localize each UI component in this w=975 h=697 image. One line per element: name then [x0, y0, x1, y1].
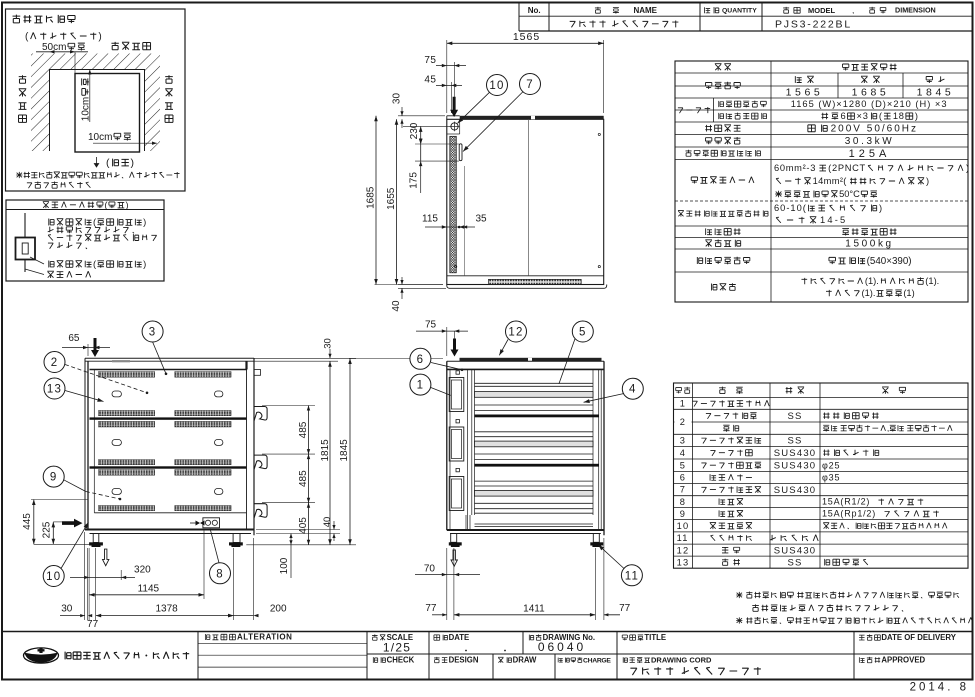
- svg-text:230: 230: [409, 122, 420, 139]
- svg-text:11: 11: [625, 570, 639, 582]
- front view: [339, 319, 643, 620]
- svg-text:485: 485: [298, 470, 309, 487]
- svg-text:SUS430: SUS430: [774, 448, 817, 459]
- handle profiles (right of side view): [254, 407, 267, 422]
- water inlet thick arrow (side): [62, 519, 83, 528]
- svg-text:3: 3: [680, 436, 686, 446]
- balloon 13: [44, 378, 65, 399]
- svg-text:1500kg: 1500kg: [845, 239, 893, 250]
- svg-text:φ35: φ35: [822, 472, 840, 482]
- balloon 5: [572, 321, 593, 342]
- svg-text:175: 175: [408, 172, 419, 189]
- svg-text:1655: 1655: [386, 187, 397, 210]
- plan bottom grille: [488, 279, 581, 284]
- svg-text:MODEL: MODEL: [808, 6, 836, 15]
- plan bottom front band: [447, 275, 604, 277]
- svg-text:): ): [98, 31, 101, 42]
- svg-text:1685: 1685: [365, 186, 376, 209]
- svg-text:30: 30: [391, 93, 402, 105]
- svg-text:): ): [143, 216, 146, 227]
- svg-text:): ): [966, 163, 970, 173]
- front label: [94, 157, 98, 167]
- svg-text:3: 3: [149, 327, 157, 339]
- svg-text:ALTERATION: ALTERATION: [237, 633, 292, 642]
- dim 40 (plan bottom): [398, 287, 446, 289]
- svg-text:1: 1: [680, 399, 686, 409]
- svg-text:4: 4: [680, 448, 686, 458]
- balloon 11: [621, 565, 642, 586]
- corner screws: [598, 133, 600, 135]
- power inlet thick arrow (side): [91, 338, 99, 357]
- svg-text:(540×390): (540×390): [867, 256, 912, 267]
- svg-text:100: 100: [279, 557, 290, 574]
- svg-text:No.: No.: [528, 6, 541, 15]
- svg-text:SS: SS: [787, 411, 802, 422]
- dim 45 (plan): [450, 82, 452, 113]
- svg-text:14mm²(: 14mm²(: [813, 176, 848, 186]
- balloon 10 (side): [43, 566, 64, 587]
- dim 1685 (plan depth): [375, 115, 399, 117]
- svg-text:): ): [143, 258, 146, 269]
- power inlet thick arrow (plan): [450, 97, 458, 117]
- svg-text:): ): [131, 157, 135, 169]
- balloon 10 (plan): [487, 75, 508, 96]
- svg-text:(1).: (1).: [925, 276, 939, 286]
- svg-text:): ): [926, 176, 929, 186]
- combustible wall hatching: [31, 54, 160, 152]
- parts list table: [674, 383, 969, 568]
- svg-text:13: 13: [47, 384, 62, 396]
- front legs/feet: [451, 534, 457, 543]
- control panels: [449, 378, 464, 412]
- side right dim chain: [246, 338, 356, 578]
- svg-text:12: 12: [508, 327, 523, 339]
- svg-text:50°C: 50°C: [839, 189, 860, 199]
- svg-text:77: 77: [87, 619, 99, 630]
- svg-text:): ): [879, 203, 883, 213]
- svg-text:5: 5: [579, 327, 587, 339]
- svg-text:10: 10: [46, 571, 61, 583]
- breaker symbol: [24, 213, 26, 238]
- svg-text:DESIGN: DESIGN: [449, 656, 479, 665]
- svg-text:1815: 1815: [320, 439, 331, 462]
- svg-text:6: 6: [680, 473, 686, 483]
- svg-text:10: 10: [677, 521, 690, 531]
- dim 30 (plan top left): [398, 115, 445, 117]
- svg-text:2: 2: [680, 417, 686, 427]
- dim 70 (front): [446, 548, 448, 620]
- plan corner plate: [459, 119, 461, 134]
- svg-text:DRAW: DRAW: [513, 656, 537, 665]
- front bottom chain 77/1411/77: [453, 548, 455, 620]
- svg-text:8: 8: [216, 568, 224, 580]
- plan center seam: [528, 119, 530, 275]
- svg-text:1165 (W)×1280 (D)×210 (H) ×3: 1165 (W)×1280 (D)×210 (H) ×3: [791, 99, 948, 109]
- plan view (top): [365, 31, 606, 311]
- balloon 7 (plan): [520, 74, 541, 95]
- footnotes: [736, 592, 975, 624]
- svg-text:(1).: (1).: [865, 276, 879, 286]
- specification table: [675, 61, 970, 302]
- dim 100 (side bottom right): [290, 535, 292, 545]
- svg-text:1/25: 1/25: [383, 641, 411, 655]
- balloon 2: [44, 352, 65, 373]
- power entry mark: [451, 123, 458, 130]
- svg-text:115: 115: [422, 213, 438, 224]
- svg-text:TITLE: TITLE: [644, 633, 666, 642]
- svg-text:11: 11: [677, 533, 689, 543]
- svg-text:60mm²-3: 60mm²-3: [774, 163, 816, 173]
- dim 230 / 175 (plan): [403, 125, 450, 127]
- svg-text:320: 320: [134, 565, 151, 576]
- top title table: [519, 4, 973, 32]
- svg-text:30: 30: [323, 338, 334, 349]
- svg-text:NAME: NAME: [633, 6, 657, 15]
- svg-text:DRAWING CORD: DRAWING CORD: [651, 656, 712, 665]
- svg-text:DATE OF DELIVERY: DATE OF DELIVERY: [881, 633, 956, 642]
- door right boundary: [592, 369, 594, 515]
- svg-text:13: 13: [677, 557, 690, 567]
- svg-text:77: 77: [619, 603, 631, 614]
- svg-text:18: 18: [893, 111, 905, 121]
- drain marker arrow (hollow): [103, 549, 109, 566]
- dim 1565 (plan width): [446, 40, 448, 113]
- svg-text:06040: 06040: [538, 640, 586, 654]
- svg-text:10cm: 10cm: [80, 97, 91, 121]
- svg-text:SS: SS: [787, 436, 802, 447]
- power inlet thick arrow (front): [451, 339, 459, 357]
- svg-text:×3: ×3: [857, 111, 869, 121]
- svg-text:30.3kW: 30.3kW: [845, 136, 895, 147]
- svg-text:15A(Rp1/2): 15A(Rp1/2): [822, 509, 876, 519]
- svg-text:2014. 8: 2014. 8: [910, 681, 969, 692]
- small squares between panels: [456, 371, 459, 374]
- svg-text:SUS430: SUS430: [774, 545, 817, 556]
- svg-text:40: 40: [391, 300, 402, 312]
- svg-text:1845: 1845: [917, 87, 955, 99]
- svg-text:CHECK: CHECK: [387, 656, 415, 665]
- dim 1145: [203, 530, 205, 599]
- svg-text:125A: 125A: [849, 148, 891, 160]
- side vent perforation strips: [98, 372, 154, 378]
- svg-text:SUS430: SUS430: [774, 460, 817, 471]
- svg-text:15A(R1/2): 15A(R1/2): [822, 497, 870, 507]
- svg-text:200: 200: [270, 603, 287, 614]
- svg-text:12: 12: [677, 545, 690, 555]
- svg-text:75: 75: [424, 55, 436, 66]
- svg-text:,: ,: [887, 423, 889, 433]
- balloon 8: [210, 563, 231, 584]
- dim 320 (side bottom): [75, 574, 130, 576]
- exhaust slot (part 7): [459, 144, 462, 161]
- balloon 1: [410, 374, 431, 395]
- svg-text:405: 405: [298, 517, 309, 534]
- svg-text:1411: 1411: [523, 603, 545, 614]
- svg-text:4: 4: [629, 384, 637, 396]
- svg-text:5: 5: [680, 460, 686, 470]
- power cord connection box: [6, 200, 164, 281]
- svg-text:9: 9: [680, 509, 686, 519]
- front top plate: [447, 360, 604, 362]
- svg-text:1: 1: [417, 380, 425, 392]
- dim 30 (side top right): [329, 349, 331, 358]
- svg-text:(2PNCT: (2PNCT: [828, 163, 866, 173]
- svg-text:6: 6: [417, 354, 425, 366]
- oven footprint rect: [75, 74, 140, 153]
- dim 1815: [254, 357, 356, 359]
- svg-text:DATE: DATE: [449, 633, 470, 642]
- svg-text:65: 65: [68, 333, 80, 344]
- svg-text:30: 30: [61, 603, 73, 614]
- svg-text:DIMENSION: DIMENSION: [895, 6, 936, 15]
- svg-text:φ25: φ25: [822, 460, 840, 470]
- svg-text:QUANTITY: QUANTITY: [722, 8, 757, 15]
- svg-text:): ): [126, 200, 129, 210]
- svg-text:77: 77: [425, 603, 437, 614]
- svg-text:445: 445: [22, 513, 33, 530]
- svg-text:10: 10: [489, 80, 504, 92]
- svg-text:1378: 1378: [155, 604, 178, 615]
- svg-text:60-10(: 60-10(: [774, 203, 807, 213]
- bottom chain 30/1378/200/77: [84, 532, 86, 620]
- svg-text:70: 70: [424, 563, 436, 574]
- dim 40 (side bottom right): [256, 529, 340, 531]
- svg-text:1685: 1685: [852, 87, 890, 99]
- side view (left): [22, 321, 287, 630]
- svg-text:(: (: [105, 200, 108, 210]
- svg-text:200V 50/60Hz: 200V 50/60Hz: [831, 124, 918, 135]
- balloon 9: [43, 466, 64, 487]
- svg-text:14-5: 14-5: [820, 215, 847, 225]
- svg-text:35: 35: [475, 213, 487, 224]
- svg-text:1565: 1565: [513, 31, 540, 43]
- water/drain unit (part 8): [203, 518, 220, 528]
- svg-text:(1): (1): [903, 288, 914, 298]
- svg-text:225: 225: [42, 521, 53, 538]
- chimney top band: [460, 116, 604, 120]
- chimney band (front): [460, 358, 602, 362]
- control column: [449, 369, 451, 530]
- svg-text:1845: 1845: [339, 439, 350, 462]
- svg-text:(: (: [879, 111, 883, 121]
- dim 75 (front top): [446, 327, 448, 356]
- svg-text:40: 40: [322, 517, 333, 528]
- company logo: [24, 648, 59, 663]
- svg-text:6: 6: [840, 111, 846, 121]
- dim 115 / 35 (plan): [425, 226, 475, 228]
- svg-text:9: 9: [50, 472, 58, 484]
- svg-text:(1).: (1).: [861, 288, 875, 298]
- svg-text:,: ,: [852, 5, 854, 15]
- svg-text:1565: 1565: [786, 87, 824, 99]
- side legs and feet: [93, 534, 99, 543]
- svg-text:): ): [915, 111, 919, 121]
- svg-text:7: 7: [680, 485, 686, 495]
- svg-text:45: 45: [424, 75, 436, 86]
- svg-text:75: 75: [425, 319, 437, 330]
- dim 1845 (front left): [349, 358, 443, 360]
- svg-text:APPROVED: APPROVED: [881, 656, 925, 665]
- balloon 6: [410, 348, 431, 369]
- title block: [2, 632, 973, 694]
- balloon 12: [506, 321, 527, 342]
- balloon 4: [622, 378, 643, 399]
- dim 445/225 (side left): [31, 499, 88, 501]
- combustible labels: [111, 42, 150, 50]
- svg-text:2: 2: [51, 357, 59, 369]
- plan left vent strip (hatched): [450, 136, 457, 272]
- svg-text:(: (: [106, 157, 110, 169]
- svg-text:SS: SS: [787, 557, 802, 568]
- svg-text:8: 8: [680, 497, 686, 507]
- side body outline: [84, 358, 86, 529]
- dim 1655 (plan): [396, 119, 398, 284]
- svg-text:SUS430: SUS430: [774, 485, 817, 496]
- svg-text:7: 7: [526, 79, 534, 91]
- svg-text:CHARGE: CHARGE: [583, 657, 611, 664]
- installation notes box: [6, 9, 186, 191]
- dim 65 (side top): [87, 344, 89, 356]
- svg-text:10cm: 10cm: [88, 132, 112, 143]
- svg-text:PJS3-222BL: PJS3-222BL: [775, 18, 852, 30]
- oven doors (slats): [475, 382, 594, 384]
- dim 75 (plan): [453, 62, 455, 113]
- drain marker arrow (front, hollow): [451, 550, 457, 566]
- balloon 3: [142, 321, 163, 342]
- svg-text:1145: 1145: [138, 584, 160, 595]
- plan body outline: [447, 119, 604, 284]
- svg-text:485: 485: [298, 421, 309, 438]
